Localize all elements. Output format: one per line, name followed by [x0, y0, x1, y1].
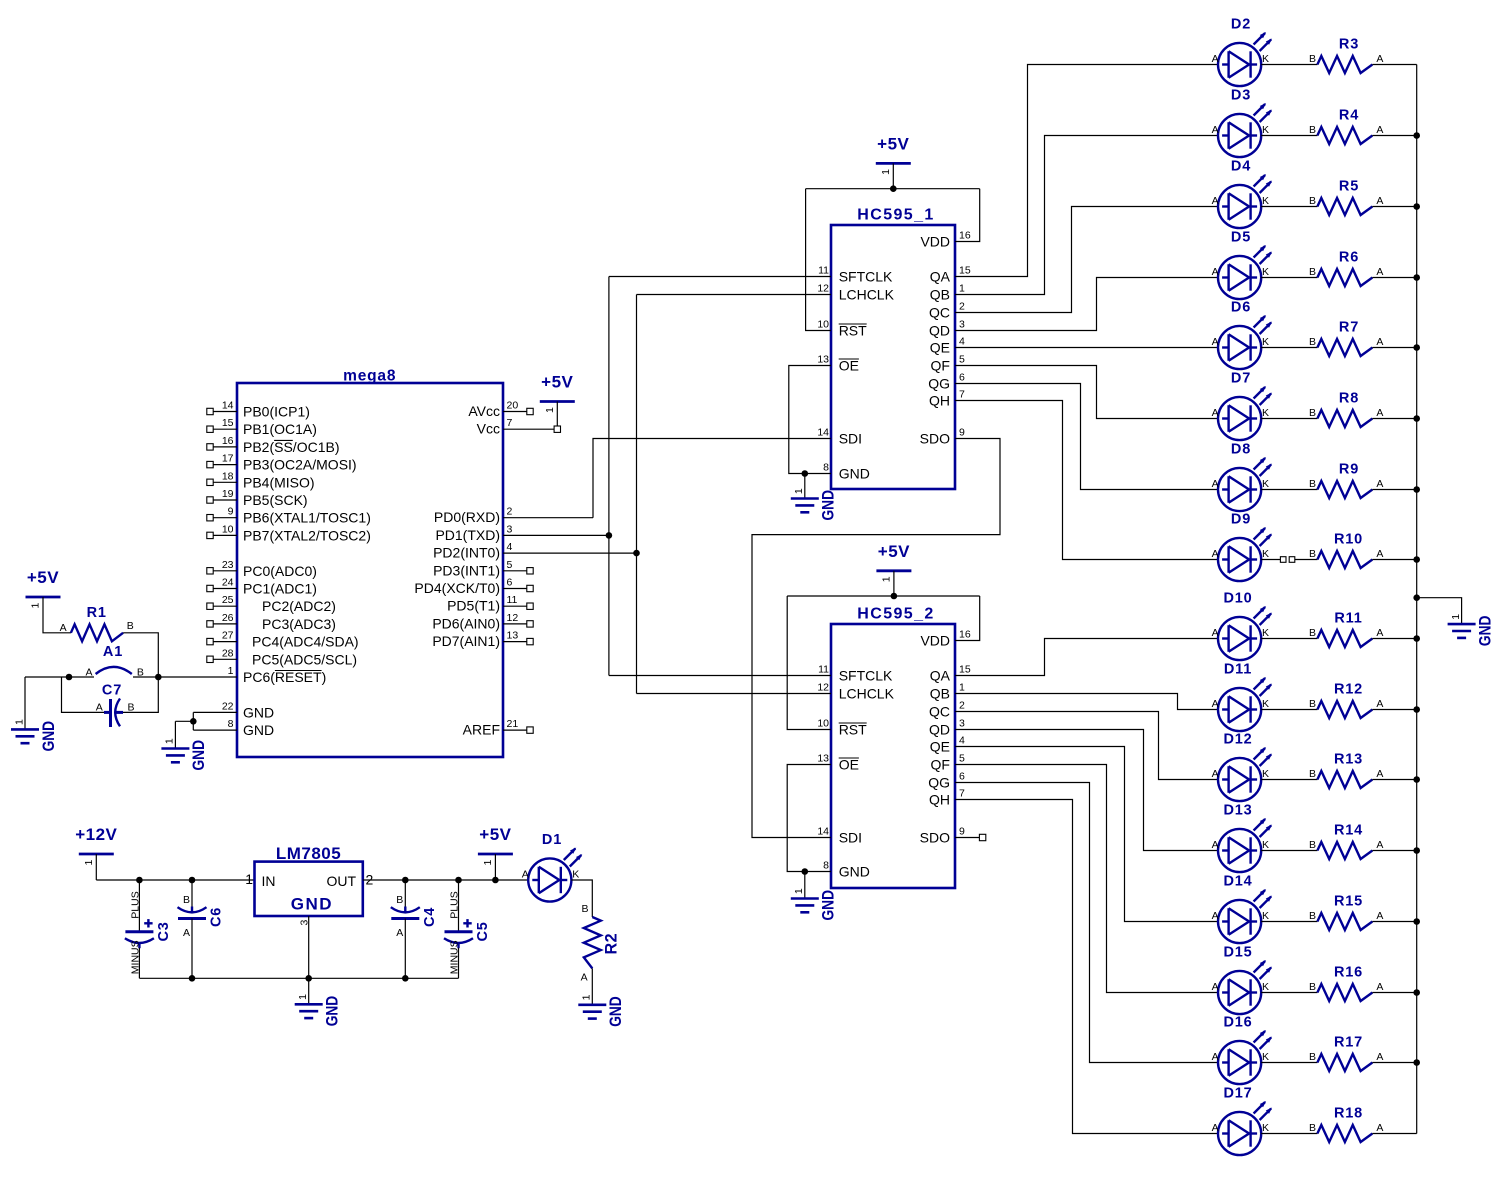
svg-text:PD0(RXD): PD0(RXD): [434, 509, 500, 525]
svg-text:GND: GND: [291, 895, 333, 914]
svg-text:B: B: [128, 701, 135, 713]
svg-text:9: 9: [228, 506, 234, 518]
svg-text:A: A: [581, 972, 588, 984]
svg-text:OE: OE: [839, 358, 859, 374]
svg-text:B: B: [1309, 124, 1316, 136]
svg-text:QG: QG: [928, 775, 950, 791]
svg-text:K: K: [1262, 407, 1269, 419]
svg-text:B: B: [137, 667, 144, 679]
svg-text:A: A: [396, 927, 403, 939]
svg-text:D3: D3: [1231, 88, 1251, 104]
svg-text:PC6(RESET): PC6(RESET): [243, 669, 326, 685]
svg-text:PD3(INT1): PD3(INT1): [433, 562, 500, 578]
svg-text:R2: R2: [602, 933, 621, 955]
svg-text:K: K: [1262, 336, 1269, 348]
svg-text:K: K: [1262, 1122, 1269, 1134]
svg-text:9: 9: [959, 427, 965, 439]
svg-text:D15: D15: [1224, 945, 1253, 961]
svg-text:A: A: [96, 701, 103, 713]
svg-text:PB3(OC2A/MOSI): PB3(OC2A/MOSI): [243, 457, 357, 473]
svg-text:A: A: [85, 667, 92, 679]
svg-text:PD1(TXD): PD1(TXD): [435, 527, 500, 543]
svg-text:SDI: SDI: [839, 830, 862, 846]
svg-text:2: 2: [507, 506, 513, 518]
svg-text:R9: R9: [1339, 462, 1359, 478]
svg-text:D16: D16: [1224, 1015, 1253, 1031]
svg-text:R16: R16: [1334, 965, 1363, 981]
svg-text:B: B: [1309, 981, 1316, 993]
svg-text:PC2(ADC2): PC2(ADC2): [262, 598, 336, 614]
svg-text:GND: GND: [323, 996, 342, 1027]
svg-text:1: 1: [959, 682, 965, 694]
svg-text:25: 25: [222, 594, 234, 606]
svg-text:RST: RST: [839, 722, 867, 738]
svg-text:11: 11: [507, 594, 518, 606]
svg-text:6: 6: [959, 771, 965, 783]
svg-text:1: 1: [581, 994, 593, 1000]
svg-text:A: A: [1212, 981, 1219, 993]
svg-text:27: 27: [222, 630, 234, 642]
svg-text:HC595_1: HC595_1: [857, 207, 934, 224]
svg-text:+5V: +5V: [877, 134, 909, 153]
svg-text:R3: R3: [1339, 37, 1359, 53]
svg-text:K: K: [1262, 1051, 1269, 1063]
svg-text:12: 12: [817, 682, 829, 694]
svg-text:A: A: [1376, 336, 1383, 348]
svg-text:PD4(XCK/T0): PD4(XCK/T0): [414, 580, 500, 596]
svg-text:+12V: +12V: [75, 825, 117, 844]
svg-text:SDO: SDO: [920, 830, 950, 846]
svg-text:K: K: [1262, 478, 1269, 490]
svg-text:K: K: [572, 869, 579, 881]
svg-text:QF: QF: [931, 358, 950, 374]
svg-text:1: 1: [297, 994, 309, 1000]
svg-text:QB: QB: [930, 287, 950, 303]
svg-text:R4: R4: [1339, 108, 1359, 124]
svg-text:AVcc: AVcc: [468, 403, 500, 419]
svg-text:A: A: [1376, 627, 1383, 639]
svg-text:+5V: +5V: [27, 568, 59, 587]
svg-text:5: 5: [507, 559, 513, 571]
svg-text:R17: R17: [1334, 1035, 1363, 1051]
svg-text:2: 2: [959, 301, 965, 313]
svg-text:1: 1: [793, 888, 805, 894]
svg-text:A: A: [1212, 1051, 1219, 1063]
svg-text:PB7(XTAL2/TOSC2): PB7(XTAL2/TOSC2): [243, 527, 371, 543]
svg-text:C3: C3: [156, 921, 172, 941]
svg-text:R12: R12: [1334, 682, 1363, 698]
svg-text:A: A: [60, 622, 67, 634]
svg-text:QA: QA: [930, 668, 951, 684]
svg-text:K: K: [1262, 910, 1269, 922]
svg-text:7: 7: [959, 788, 965, 800]
svg-text:B: B: [1309, 478, 1316, 490]
svg-text:PB0(ICP1): PB0(ICP1): [243, 404, 310, 420]
svg-text:D10: D10: [1224, 591, 1253, 607]
svg-text:15: 15: [959, 265, 971, 277]
svg-text:LCHCLK: LCHCLK: [839, 287, 895, 303]
svg-text:B: B: [1309, 266, 1316, 278]
svg-text:GND: GND: [243, 704, 274, 720]
svg-text:GND: GND: [606, 996, 625, 1027]
svg-text:A: A: [1376, 839, 1383, 851]
svg-text:24: 24: [222, 577, 234, 589]
svg-text:B: B: [183, 894, 190, 906]
svg-text:OE: OE: [839, 757, 859, 773]
svg-text:A: A: [1376, 124, 1383, 136]
svg-text:D5: D5: [1231, 230, 1251, 246]
svg-text:+5V: +5V: [479, 825, 511, 844]
svg-text:A: A: [1212, 53, 1219, 65]
svg-text:A: A: [1212, 1122, 1219, 1134]
svg-text:QE: QE: [930, 739, 950, 755]
svg-text:12: 12: [507, 612, 519, 624]
svg-text:1: 1: [245, 871, 253, 887]
svg-text:A: A: [1212, 627, 1219, 639]
svg-text:PD6(AIN0): PD6(AIN0): [432, 615, 500, 631]
svg-text:3: 3: [959, 319, 965, 331]
svg-text:17: 17: [222, 453, 234, 465]
svg-text:14: 14: [817, 427, 829, 439]
svg-text:C6: C6: [209, 907, 225, 927]
svg-text:D4: D4: [1231, 159, 1251, 175]
svg-text:R11: R11: [1334, 611, 1362, 627]
svg-text:R7: R7: [1339, 320, 1359, 336]
svg-text:4: 4: [959, 735, 965, 747]
svg-text:K: K: [1262, 839, 1269, 851]
svg-text:3: 3: [507, 523, 513, 535]
svg-text:QH: QH: [929, 393, 950, 409]
svg-text:Vcc: Vcc: [477, 421, 500, 437]
svg-text:GND: GND: [819, 490, 838, 521]
svg-text:mega8: mega8: [343, 368, 396, 385]
svg-text:A: A: [1212, 768, 1219, 780]
svg-text:C4: C4: [422, 907, 438, 927]
svg-text:D13: D13: [1224, 803, 1253, 819]
svg-text:GND: GND: [1475, 616, 1494, 647]
svg-text:1: 1: [959, 283, 965, 295]
svg-text:PC5(ADC5/SCL): PC5(ADC5/SCL): [252, 651, 357, 667]
svg-text:A1: A1: [103, 644, 123, 660]
svg-text:PB2(SS/OC1B): PB2(SS/OC1B): [243, 439, 339, 455]
svg-text:K: K: [1262, 627, 1269, 639]
svg-text:C5: C5: [475, 921, 491, 941]
svg-text:5: 5: [959, 753, 965, 765]
svg-text:R18: R18: [1334, 1106, 1363, 1122]
svg-text:6: 6: [507, 577, 513, 589]
svg-text:23: 23: [222, 559, 234, 571]
svg-text:GND: GND: [839, 864, 870, 880]
svg-text:A: A: [1376, 910, 1383, 922]
svg-text:B: B: [1309, 336, 1316, 348]
svg-text:R6: R6: [1339, 250, 1359, 266]
svg-text:13: 13: [817, 354, 829, 366]
svg-text:R5: R5: [1339, 179, 1359, 195]
svg-text:1: 1: [880, 169, 892, 175]
svg-text:B: B: [1309, 53, 1316, 65]
svg-text:B: B: [1309, 627, 1316, 639]
svg-text:B: B: [1309, 195, 1316, 207]
svg-text:16: 16: [222, 435, 234, 447]
svg-text:K: K: [1262, 53, 1269, 65]
svg-text:PC0(ADC0): PC0(ADC0): [243, 563, 317, 579]
svg-text:A: A: [1212, 336, 1219, 348]
svg-text:9: 9: [959, 826, 965, 838]
svg-text:GND: GND: [839, 466, 870, 482]
svg-text:18: 18: [222, 470, 234, 482]
svg-text:QH: QH: [929, 792, 950, 808]
svg-text:B: B: [1309, 407, 1316, 419]
svg-text:3: 3: [959, 718, 965, 730]
svg-text:13: 13: [817, 753, 829, 765]
svg-text:GND: GND: [189, 740, 208, 771]
svg-text:A: A: [1376, 1051, 1383, 1063]
svg-text:1: 1: [228, 665, 234, 677]
svg-text:K: K: [1262, 768, 1269, 780]
svg-text:QA: QA: [930, 269, 951, 285]
svg-text:8: 8: [823, 860, 829, 872]
svg-text:PB4(MISO): PB4(MISO): [243, 474, 315, 490]
svg-text:B: B: [581, 903, 588, 915]
svg-text:QC: QC: [929, 704, 950, 720]
svg-text:16: 16: [959, 230, 971, 242]
svg-text:A: A: [183, 927, 190, 939]
svg-text:GND: GND: [243, 722, 274, 738]
svg-text:5: 5: [959, 354, 965, 366]
svg-text:IN: IN: [262, 873, 276, 889]
svg-text:B: B: [1309, 839, 1316, 851]
svg-text:1: 1: [13, 719, 25, 725]
svg-text:+5V: +5V: [541, 373, 573, 392]
svg-text:SDI: SDI: [839, 431, 862, 447]
svg-text:PD2(INT0): PD2(INT0): [433, 545, 500, 561]
svg-text:14: 14: [222, 400, 234, 412]
svg-text:K: K: [1262, 266, 1269, 278]
svg-text:20: 20: [507, 400, 519, 412]
svg-text:LCHCLK: LCHCLK: [839, 686, 895, 702]
svg-text:R13: R13: [1334, 752, 1363, 768]
svg-text:QB: QB: [930, 686, 950, 702]
svg-text:A: A: [522, 869, 529, 881]
svg-text:OUT: OUT: [326, 873, 356, 889]
svg-text:1: 1: [880, 576, 892, 582]
svg-text:28: 28: [222, 647, 234, 659]
svg-text:PLUS: PLUS: [449, 891, 461, 918]
svg-text:10: 10: [817, 718, 829, 730]
svg-text:K: K: [1262, 124, 1269, 136]
svg-text:D11: D11: [1224, 662, 1252, 678]
svg-text:SFTCLK: SFTCLK: [839, 269, 893, 285]
svg-text:PB5(SCK): PB5(SCK): [243, 492, 308, 508]
svg-text:GND: GND: [39, 721, 58, 752]
svg-text:QG: QG: [928, 376, 950, 392]
svg-text:11: 11: [818, 265, 829, 277]
svg-text:19: 19: [222, 488, 234, 500]
svg-text:PB1(OC1A): PB1(OC1A): [243, 421, 317, 437]
svg-text:B: B: [1309, 910, 1316, 922]
svg-text:4: 4: [959, 336, 965, 348]
svg-text:D6: D6: [1231, 300, 1251, 316]
svg-text:A: A: [1376, 266, 1383, 278]
svg-text:PD5(T1): PD5(T1): [447, 598, 500, 614]
svg-text:VDD: VDD: [920, 234, 950, 250]
svg-text:12: 12: [817, 283, 829, 295]
svg-text:D7: D7: [1231, 371, 1251, 387]
svg-text:D9: D9: [1231, 512, 1251, 528]
svg-text:B: B: [1309, 548, 1316, 560]
svg-text:4: 4: [507, 541, 513, 553]
svg-text:+5V: +5V: [878, 542, 910, 561]
svg-text:PLUS: PLUS: [129, 891, 141, 918]
svg-text:B: B: [1309, 768, 1316, 780]
svg-text:QF: QF: [931, 757, 950, 773]
svg-text:A: A: [1376, 768, 1383, 780]
svg-text:B: B: [396, 894, 403, 906]
svg-text:K: K: [1262, 698, 1269, 710]
svg-text:A: A: [1212, 839, 1219, 851]
svg-text:A: A: [1212, 698, 1219, 710]
svg-text:D2: D2: [1231, 17, 1251, 33]
svg-text:8: 8: [228, 718, 234, 730]
svg-text:14: 14: [817, 826, 829, 838]
svg-text:21: 21: [507, 718, 519, 730]
svg-text:A: A: [1376, 195, 1383, 207]
svg-text:6: 6: [959, 372, 965, 384]
svg-text:R15: R15: [1334, 894, 1363, 910]
svg-text:HC595_2: HC595_2: [857, 606, 934, 623]
svg-text:A: A: [1212, 124, 1219, 136]
svg-text:1: 1: [83, 860, 95, 866]
svg-text:SFTCLK: SFTCLK: [839, 668, 893, 684]
svg-text:PC4(ADC4/SDA): PC4(ADC4/SDA): [252, 634, 359, 650]
svg-text:16: 16: [959, 629, 971, 641]
svg-text:AREF: AREF: [463, 722, 500, 738]
svg-text:A: A: [1376, 1122, 1383, 1134]
svg-text:2: 2: [959, 700, 965, 712]
svg-text:K: K: [1262, 981, 1269, 993]
svg-text:22: 22: [222, 700, 234, 712]
svg-text:A: A: [1212, 195, 1219, 207]
svg-text:R14: R14: [1334, 823, 1363, 839]
svg-text:VDD: VDD: [920, 633, 950, 649]
svg-text:D8: D8: [1231, 442, 1251, 458]
svg-text:B: B: [127, 620, 134, 632]
svg-text:11: 11: [818, 664, 829, 676]
svg-text:K: K: [1262, 548, 1269, 560]
svg-text:LM7805: LM7805: [276, 844, 341, 863]
svg-text:8: 8: [823, 462, 829, 474]
svg-text:B: B: [1309, 1122, 1316, 1134]
svg-text:D17: D17: [1224, 1086, 1253, 1102]
svg-text:A: A: [1376, 548, 1383, 560]
svg-text:R1: R1: [87, 605, 107, 621]
svg-text:QD: QD: [929, 722, 950, 738]
svg-text:D12: D12: [1224, 732, 1253, 748]
svg-text:A: A: [1212, 266, 1219, 278]
svg-text:26: 26: [222, 612, 234, 624]
svg-text:13: 13: [507, 630, 519, 642]
svg-text:A: A: [1212, 548, 1219, 560]
svg-text:1: 1: [793, 488, 805, 494]
svg-text:QE: QE: [930, 340, 950, 356]
svg-text:7: 7: [959, 389, 965, 401]
svg-text:RST: RST: [839, 323, 867, 339]
svg-text:10: 10: [222, 523, 234, 535]
svg-text:PC3(ADC3): PC3(ADC3): [262, 616, 336, 632]
svg-text:SDO: SDO: [920, 431, 950, 447]
svg-text:1: 1: [30, 603, 42, 609]
svg-text:A: A: [1376, 53, 1383, 65]
svg-text:D14: D14: [1224, 874, 1253, 890]
svg-text:A: A: [1212, 407, 1219, 419]
svg-text:D1: D1: [542, 832, 562, 848]
svg-text:15: 15: [959, 664, 971, 676]
svg-text:1: 1: [482, 860, 494, 866]
svg-text:PC1(ADC1): PC1(ADC1): [243, 581, 317, 597]
svg-text:PB6(XTAL1/TOSC1): PB6(XTAL1/TOSC1): [243, 510, 371, 526]
svg-text:B: B: [1309, 698, 1316, 710]
svg-text:A: A: [1376, 698, 1383, 710]
svg-text:GND: GND: [819, 890, 838, 921]
svg-text:A: A: [1212, 910, 1219, 922]
svg-text:R8: R8: [1339, 391, 1359, 407]
svg-text:B: B: [1309, 1051, 1316, 1063]
svg-text:1: 1: [164, 738, 176, 744]
svg-text:PD7(AIN1): PD7(AIN1): [432, 633, 500, 649]
svg-text:QD: QD: [929, 323, 950, 339]
svg-text:A: A: [1376, 407, 1383, 419]
svg-text:1: 1: [544, 407, 556, 413]
svg-text:15: 15: [222, 417, 234, 429]
svg-text:C7: C7: [102, 682, 122, 698]
svg-text:A: A: [1376, 981, 1383, 993]
svg-text:10: 10: [817, 319, 829, 331]
svg-text:K: K: [1262, 195, 1269, 207]
svg-text:A: A: [1376, 478, 1383, 490]
svg-text:7: 7: [507, 417, 513, 429]
svg-text:QC: QC: [929, 305, 950, 321]
svg-text:R10: R10: [1334, 532, 1363, 548]
svg-text:A: A: [1212, 478, 1219, 490]
svg-text:1: 1: [1450, 614, 1462, 620]
